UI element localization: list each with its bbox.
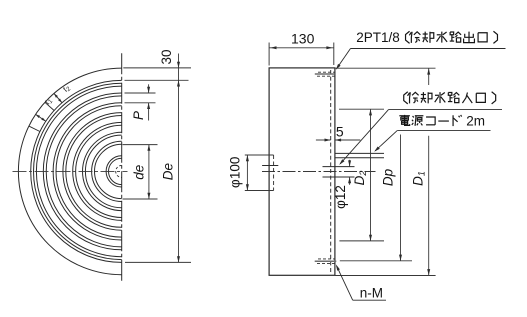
ext line: de bottom [123, 198, 158, 200]
right view: horizontal center line [262, 171, 376, 173]
dimension P dim line [147, 84, 150, 120]
svg-text:Dp: Dp [381, 168, 396, 186]
label D2 [352, 171, 368, 186]
leader: n-M [336, 264, 386, 300]
left view: finned plate front view, concentric fin arcs [31, 80, 122, 262]
ext line: de top [123, 144, 158, 146]
label 130 [291, 31, 315, 47]
ext line: fin pitch upper [125, 92, 156, 94]
ext line: Dp bottom [340, 260, 412, 262]
left view: vertical center line [121, 53, 123, 283]
label 2PT1/8 (cooling water outlet) [356, 30, 497, 45]
leader: cooling water inlet [339, 110, 502, 165]
dimension D1 dim line [427, 68, 430, 275]
ext line: D1 bottom [335, 275, 436, 277]
label power cord 2m [399, 114, 485, 129]
svg-text:2PT1/8: 2PT1/8 [356, 30, 400, 45]
dimension de dim line [147, 145, 150, 199]
svg-text:φ12: φ12 [333, 185, 348, 209]
right view: hidden fin-root line [330, 70, 332, 274]
label de [132, 165, 147, 180]
right view: phi12 stub lines [323, 167, 355, 177]
left view: flange radial line a [45, 102, 54, 110]
svg-text:130: 130 [291, 31, 315, 47]
right view: plate rectangle outline [269, 68, 335, 275]
ext line: D1 top [335, 67, 436, 69]
label P [131, 111, 146, 120]
ext line: De circle top [125, 79, 189, 81]
dimension 30 / De shared dim line [177, 54, 180, 263]
svg-text:30: 30 [159, 49, 174, 64]
svg-text:5: 5 [336, 124, 344, 140]
right view: PT1/8 tap symbol top [315, 72, 335, 76]
dimension 5 [316, 139, 360, 142]
right view: phi100 boss hidden line [273, 155, 275, 191]
label D1 [411, 171, 427, 186]
dimension D2 dim line [369, 109, 372, 241]
dimension phi12 dim line [348, 160, 351, 185]
svg-text:De: De [161, 163, 176, 180]
left view: horizontal center line [13, 170, 128, 172]
left view: center hole hidden circle [116, 165, 122, 177]
right view: small hole line upper left [262, 165, 278, 167]
svg-text:2m: 2m [466, 114, 485, 129]
ext line: D2 bottom [339, 240, 384, 242]
label n-M [360, 286, 383, 301]
label De [161, 163, 176, 180]
svg-text:φ100: φ100 [228, 157, 243, 188]
ext line: outer circle top [123, 67, 191, 69]
ext line: De circle bottom [125, 261, 191, 263]
left view: fin thickness callout t1 [54, 83, 73, 103]
label phi12 [333, 185, 348, 209]
ext line: phi100 bottom [245, 190, 274, 192]
ext line: phi100 top [245, 154, 274, 156]
dimension Dp dim line [399, 135, 402, 261]
label phi100 [228, 157, 243, 188]
label 5 [336, 124, 344, 140]
leader: 2PT1/8 outlet [336, 49, 506, 70]
label Dp [381, 168, 396, 186]
svg-text:P: P [131, 111, 146, 120]
ext line: D2 top [339, 108, 384, 110]
left view: flange radial line b [29, 126, 40, 131]
left view: plate outer circle [18, 68, 121, 275]
right view: power cord lines [335, 153, 384, 157]
svg-text:n-M: n-M [360, 286, 383, 301]
svg-text:de: de [132, 165, 147, 180]
leader: power cord 2m [374, 131, 490, 152]
left view: fin thickness callout t2 [36, 96, 55, 121]
right view: n-M screw hole symbol bottom [315, 259, 337, 264]
ext line: fin pitch lower [125, 102, 156, 104]
dimension phi100 dim line [246, 155, 249, 191]
label (cooling water inlet) [404, 92, 496, 104]
dimension 130 [269, 43, 334, 66]
label 30 [159, 49, 174, 64]
